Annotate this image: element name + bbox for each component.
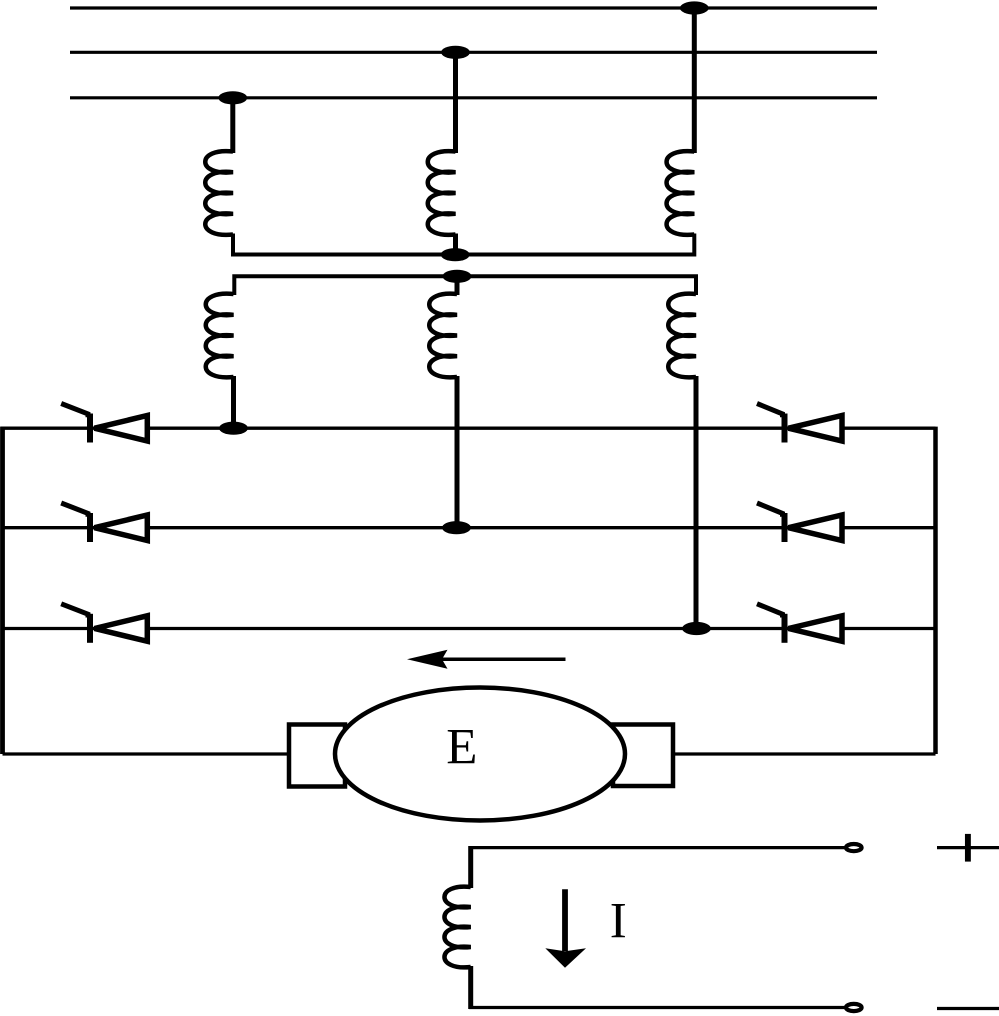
transformer primary winding 3: [667, 151, 695, 235]
wire bridge row 1: [1, 427, 936, 430]
wire secondary top bus: [234, 276, 696, 295]
thyristor left row 3: [61, 604, 147, 643]
wire bridge row 2: [3, 526, 936, 529]
node junction dot on primary bus: [441, 248, 470, 261]
current direction arrow above motor: [407, 650, 566, 669]
field winding inductor: [444, 887, 470, 968]
thyristor left row 1: [61, 404, 147, 443]
transformer secondary winding 2: [429, 294, 457, 378]
wire field circuit bottom: [468, 966, 473, 1009]
wire primary bottom bus: [233, 234, 694, 255]
node junction dot on phase B: [441, 46, 470, 59]
wire secondary winding 2 lead to bridge row 2: [455, 376, 460, 528]
wire left rail: [0, 427, 5, 754]
wire secondary winding 2 top lead: [455, 276, 460, 295]
wire motor left lead: [3, 752, 293, 755]
wire bridge row 3: [3, 627, 936, 630]
transformer secondary winding 1: [206, 294, 234, 378]
node junction dot row 1 / secondary 1: [219, 422, 248, 435]
node junction dot row 3 / secondary 3: [682, 622, 711, 635]
thyristor right row 3: [757, 604, 842, 643]
wire motor right lead: [670, 752, 936, 755]
node junction dot on phase A: [680, 1, 709, 14]
terminal positive (circle): [846, 844, 862, 851]
svg-text:E: E: [446, 720, 477, 776]
wire drop lead from phase B to primary winding 2: [453, 52, 458, 153]
terminal negative (circle): [846, 1004, 862, 1011]
transformer primary winding 1: [205, 151, 233, 235]
svg-text:I: I: [610, 894, 627, 950]
transformer primary winding 2: [428, 151, 456, 235]
motor armature ellipse: [335, 688, 625, 821]
wire primary winding 2 bottom lead: [453, 234, 458, 255]
wire drop lead from phase A to primary winding 3: [692, 8, 697, 153]
transformer secondary winding 3: [668, 294, 696, 378]
thyristor right row 1: [757, 404, 842, 443]
wire field circuit top: [469, 846, 846, 849]
wire secondary winding 3 lead to bridge row 3: [694, 376, 699, 629]
symbol plus: [937, 834, 999, 862]
wire secondary winding 1 lead to bridge row 1: [231, 376, 236, 428]
motor brush right: [613, 725, 673, 787]
node junction dot row 2 / secondary 2: [442, 521, 471, 534]
wire drop lead from phase C to primary winding 1: [230, 98, 235, 153]
thyristor left row 2: [61, 503, 147, 542]
node junction dot on secondary bus: [443, 270, 472, 283]
wire phase line B (middle): [70, 51, 877, 54]
motor brush left: [289, 725, 345, 787]
wire phase line A (top): [70, 6, 877, 9]
wire phase line C (bottom): [70, 96, 877, 99]
node junction dot on phase C: [218, 91, 247, 104]
wire right rail: [933, 427, 938, 754]
field current arrow I: [545, 889, 586, 967]
symbol minus: [937, 1007, 999, 1010]
thyristor right row 2: [757, 503, 842, 542]
